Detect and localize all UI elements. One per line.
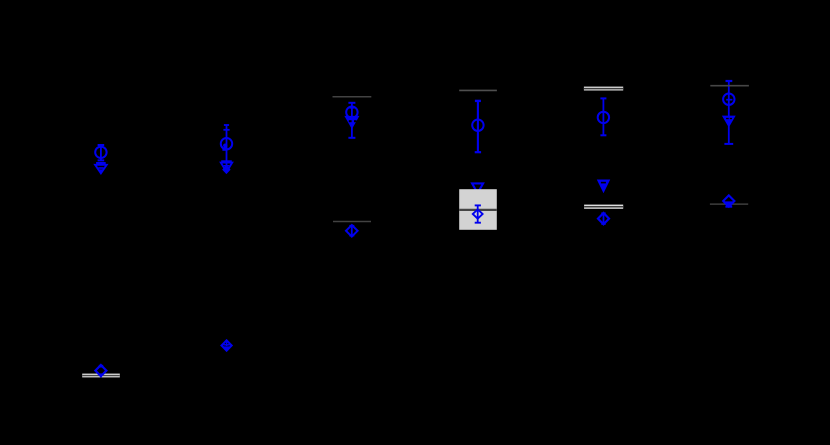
- errorbar cap top c4: [475, 100, 481, 102]
- errorbar line series1 c5: [602, 98, 604, 135]
- errorbar cap diamond c1: [99, 365, 103, 367]
- triangle notch left c6: [726, 118, 729, 119]
- diamond marker low c2: [222, 340, 232, 350]
- errorbar cap inner c1: [98, 167, 103, 169]
- triangle marker c5: [598, 180, 609, 191]
- median line c1: [82, 375, 120, 377]
- collapsed gray box bottom c3: [333, 221, 371, 223]
- errorbar cap top c1: [98, 144, 105, 146]
- cluster 2 group x=226.5: [221, 125, 232, 173]
- collapsed gray box top c6: [710, 85, 749, 87]
- errorbar cap bottom c3: [348, 137, 355, 139]
- errorbar cap top c5: [600, 97, 606, 99]
- diamond marker c1: [95, 365, 106, 376]
- collapsed gray box top c3: [333, 96, 372, 98]
- flat gray box bottom c5: [584, 205, 623, 209]
- triangle marker c6: [723, 116, 734, 126]
- errorbar cap bottom c4: [475, 151, 481, 153]
- inner blob c2: [223, 144, 227, 148]
- errorbar line diamond c5: [603, 213, 605, 224]
- cluster 6 group x=728.8: [726, 81, 733, 144]
- errorbar line diamond c3: [351, 226, 353, 236]
- collapsed gray box top c4: [459, 89, 497, 91]
- diamond marker c3: [346, 225, 358, 237]
- errorbar line diamond c4: [477, 205, 479, 222]
- errorbar cap diamond c2: [223, 344, 229, 346]
- errorbar cap inner c3: [349, 107, 354, 109]
- errorbar cap bottom diamond c3: [349, 235, 354, 237]
- gray box c4: [459, 189, 497, 230]
- median line bottom c5: [584, 206, 623, 208]
- errorbar cap 3 c2: [221, 160, 232, 162]
- small filled diamond c2: [223, 166, 230, 173]
- errorbar cap bottom diamond c6: [725, 206, 732, 208]
- diamond marker c4: [473, 209, 483, 218]
- errorbar cap top c3: [348, 102, 355, 104]
- errorbar stub diamond c2: [226, 341, 228, 346]
- triangle marker c2: [221, 163, 232, 172]
- errorbar cap top c6: [726, 80, 733, 82]
- errorbar line series1 c2: [226, 125, 228, 172]
- errorbar line series1 c3: [351, 103, 353, 138]
- errorbar cap bottom c5: [600, 134, 606, 136]
- errorbar line series1 c4: [477, 101, 479, 152]
- circle marker c6: [723, 94, 734, 105]
- errorbar cap top diamond c5: [601, 212, 605, 214]
- errorbar cap bottom c6: [724, 143, 733, 145]
- errorbar cap bottom diamond c5: [601, 223, 605, 225]
- errorbar stub top diamond c1: [100, 365, 102, 368]
- median line top c5: [584, 88, 623, 90]
- errorbar cap 2 c2: [223, 129, 229, 131]
- triangle notch right c3: [354, 120, 357, 122]
- triangle marker c4: [472, 183, 483, 193]
- median line c4: [459, 209, 497, 211]
- flat gray box top c5: [584, 87, 623, 91]
- diamond marker c6: [723, 195, 734, 206]
- errorbar cap top diamond c3: [349, 225, 354, 227]
- triangle notch left c3: [349, 120, 352, 122]
- errorbar cap triangle-series c1: [96, 162, 106, 164]
- filled tip c1: [98, 169, 104, 173]
- errorbar stub bottom diamond c1: [100, 373, 102, 377]
- errorbar line series1 c1: [100, 145, 102, 160]
- errorbar cap 1 c2: [224, 124, 229, 126]
- cluster 1 group x=100.9: [95, 145, 107, 174]
- triangle marker c1: [95, 165, 107, 174]
- circle marker c3: [346, 107, 357, 118]
- filled wedge diamond c2: [224, 346, 230, 350]
- circle marker c1: [95, 147, 106, 158]
- errorbar cap inner c2: [224, 165, 230, 167]
- circle marker c2: [221, 138, 232, 149]
- circle marker c4: [472, 120, 483, 131]
- filled lower half diamond c6: [724, 201, 734, 206]
- errorbar cap bottom diamond c4: [475, 222, 481, 224]
- collapsed gray box bottom c6: [710, 203, 748, 205]
- errorbar cap top diamond c4: [475, 204, 481, 206]
- errorbar cap bottom c1: [98, 159, 105, 161]
- triangle marker c3: [346, 117, 358, 128]
- triangle notch right c6: [730, 118, 732, 119]
- errorbar line series1 c6: [728, 81, 730, 144]
- lower-left tab c2: [222, 147, 225, 150]
- diamond marker c5: [598, 213, 609, 224]
- flat gray box c1: [82, 374, 120, 378]
- triangle notch c5: [601, 182, 606, 184]
- errorbar cap inner c6: [726, 99, 732, 101]
- circle marker c5: [598, 112, 609, 123]
